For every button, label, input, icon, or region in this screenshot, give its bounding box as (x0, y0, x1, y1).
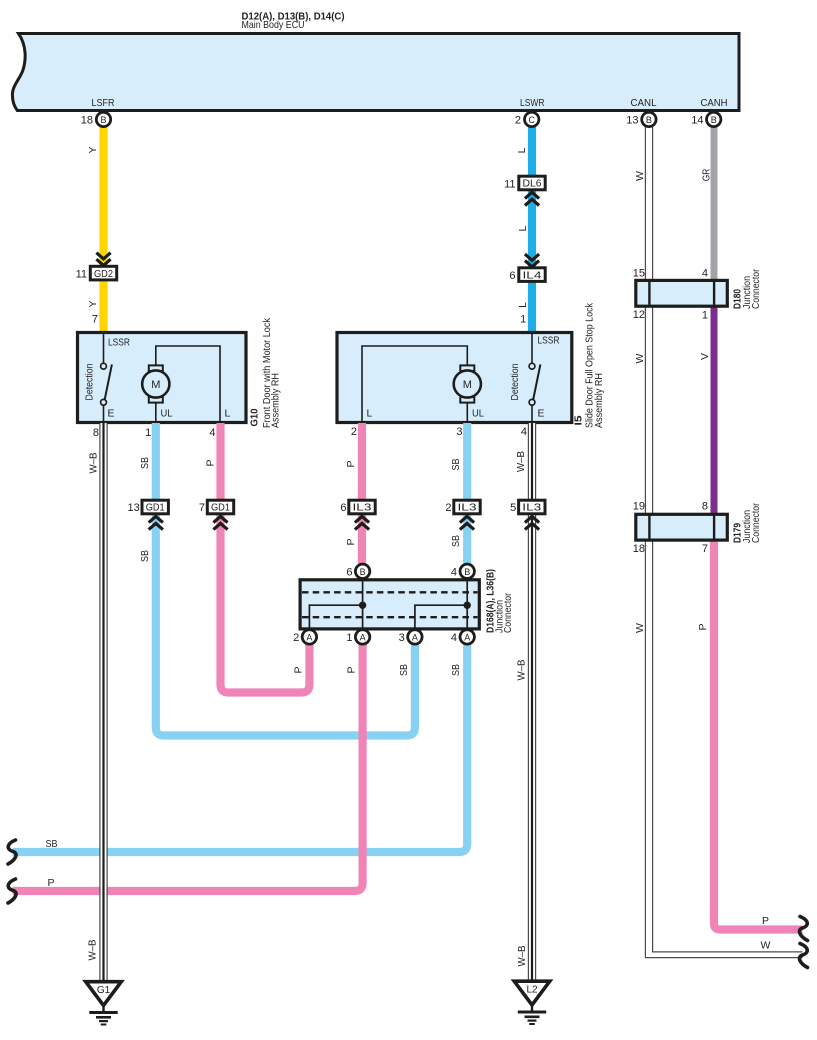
svg-text:4: 4 (209, 427, 215, 439)
connector 2 IL3 (454, 500, 480, 514)
D168 dashed bus upper (302, 591, 478, 593)
svg-text:Detection: Detection (509, 363, 521, 400)
svg-text:W: W (761, 940, 771, 952)
svg-text:P: P (762, 915, 769, 927)
svg-text:UL: UL (472, 408, 484, 420)
svg-text:18: 18 (633, 543, 645, 555)
svg-text:GR: GR (701, 168, 713, 181)
svg-text:2: 2 (351, 426, 357, 438)
svg-text:Y: Y (87, 300, 99, 307)
svg-text:L: L (517, 302, 529, 308)
svg-text:LSSR: LSSR (538, 335, 560, 347)
svg-text:11: 11 (504, 178, 515, 190)
svg-text:L: L (517, 226, 529, 232)
assembly I5 box (337, 333, 572, 423)
I5 internal wire motor to UL pin (466, 402, 468, 422)
svg-text:LSWR: LSWR (520, 97, 545, 109)
break symbol left SB (8, 840, 16, 864)
svg-text:4: 4 (521, 426, 527, 438)
svg-text:1: 1 (346, 632, 352, 644)
svg-text:SB: SB (46, 838, 58, 850)
svg-text:19: 19 (633, 501, 645, 513)
D168 junction dot left (359, 602, 366, 609)
svg-text:L2: L2 (526, 985, 538, 996)
svg-text:E: E (538, 408, 545, 420)
svg-text:Connector: Connector (750, 503, 762, 543)
svg-text:W–B: W–B (86, 940, 98, 961)
connector 13 GD1 (142, 500, 168, 514)
svg-text:6: 6 (346, 566, 352, 578)
break symbol right W (799, 944, 807, 968)
I5 internal wire motor to L pin (362, 346, 467, 422)
svg-text:Detection: Detection (83, 363, 95, 400)
break symbol left P (8, 879, 16, 903)
svg-text:A: A (306, 632, 312, 642)
svg-text:IL3: IL3 (353, 503, 372, 514)
svg-text:LSSR: LSSR (108, 337, 130, 349)
wire P G10 pin 4 through GD1 to D168 pin 2A (221, 423, 310, 693)
I5 motor M (460, 365, 474, 371)
D168 internal wire 2A branch (309, 605, 362, 628)
svg-text:P: P (345, 460, 357, 467)
svg-text:C: C (528, 115, 535, 125)
ECU pin 14 B (CANH) (707, 112, 721, 126)
svg-text:SB: SB (139, 550, 151, 562)
svg-text:B: B (100, 115, 106, 125)
svg-text:4: 4 (451, 632, 457, 644)
svg-text:W–B: W–B (515, 660, 527, 681)
ECU pin 2 C (LSWR) (525, 112, 539, 126)
svg-text:P: P (697, 623, 709, 630)
wire SB G10 pin 1 through GD1 to D168 pin 3A (156, 423, 415, 736)
break symbol right P (799, 917, 807, 941)
svg-text:W–B: W–B (516, 946, 528, 967)
wire Y (yellow) LSFR pin 18 to G10 pin 7 (99, 127, 107, 334)
svg-text:P: P (345, 538, 357, 545)
arrows into GD1 (13) (149, 516, 163, 522)
wire P from left break to D168 pin 1A (13, 644, 363, 892)
svg-text:IL3: IL3 (522, 503, 541, 514)
svg-text:M: M (151, 379, 160, 391)
ground L2 (514, 981, 550, 1005)
svg-text:CANH: CANH (701, 97, 728, 109)
svg-text:E: E (108, 408, 115, 420)
D168 pin 6 B (355, 564, 369, 578)
svg-text:B: B (464, 567, 470, 577)
svg-text:A: A (412, 632, 418, 642)
svg-text:GD2: GD2 (94, 269, 113, 280)
arrows into IL3 (6) (355, 516, 369, 522)
D168 dashed bus lower (302, 616, 478, 618)
svg-text:13: 13 (626, 115, 638, 127)
wire SB I5 pin 3 through IL3 to D168 pin 4B (463, 423, 471, 565)
connector 6 IL4 (519, 268, 545, 282)
svg-text:Main Body ECU: Main Body ECU (242, 19, 305, 31)
svg-text:7: 7 (199, 502, 205, 514)
D168 pin 4 B (460, 564, 474, 578)
svg-text:7: 7 (92, 314, 98, 326)
svg-text:6: 6 (509, 270, 515, 282)
D168 pin 3 A (408, 630, 422, 644)
svg-text:13: 13 (128, 502, 140, 514)
I5 detection switch (531, 334, 533, 363)
wire W (white) CANL pin 13 down through D180/D179 to right break (645, 127, 802, 958)
svg-text:Assembly RH: Assembly RH (593, 373, 605, 428)
D168 internal wire 3A branch (415, 605, 467, 628)
wire W-B I5 pin 4 (E) to ground L2 (527, 423, 529, 982)
ECU U1: Main Body ECU box (12, 34, 739, 111)
arrows into IL3 (2) (460, 516, 474, 522)
G10 internal wire motor to L pin (156, 346, 220, 422)
svg-text:W: W (634, 171, 646, 181)
wire SB from left break to D168 pin 4A (13, 644, 468, 853)
svg-text:M: M (463, 379, 472, 391)
svg-text:P: P (346, 666, 358, 673)
svg-text:IL3: IL3 (458, 503, 477, 514)
svg-text:UL: UL (161, 408, 173, 420)
arrows into IL3 (5) (525, 516, 539, 522)
svg-text:W–B: W–B (515, 451, 527, 472)
svg-text:L: L (225, 408, 231, 420)
connector 11 DL6 (519, 176, 545, 190)
svg-text:SB: SB (398, 664, 410, 676)
D168 pin 4 A (460, 630, 474, 644)
svg-text:2: 2 (293, 632, 299, 644)
arrows into GD1 (7) (213, 516, 227, 522)
svg-text:4: 4 (451, 566, 457, 578)
G10 detection switch (103, 334, 105, 363)
svg-text:G1: G1 (97, 985, 111, 996)
connector 11 GD2 (90, 266, 116, 280)
wire P (pink) D179 pin 7 to right break (714, 539, 803, 930)
svg-text:DL6: DL6 (523, 179, 542, 190)
wire W-B G10 pin 8 to ground G1 (99, 423, 101, 982)
svg-text:2: 2 (515, 115, 521, 127)
connector arrows into IL4 (525, 254, 539, 260)
connector 6 IL3 (349, 500, 375, 514)
svg-text:W: W (634, 353, 646, 363)
G10 internal wire motor to UL pin (155, 402, 157, 422)
svg-text:W–B: W–B (87, 453, 99, 474)
svg-text:8: 8 (93, 427, 99, 439)
svg-text:G10: G10 (249, 408, 261, 426)
assembly G10 box (78, 333, 247, 423)
svg-text:IL4: IL4 (523, 270, 542, 281)
svg-text:B: B (646, 115, 652, 125)
ECU pin 13 B (CANL) (642, 112, 656, 126)
svg-text:5: 5 (510, 502, 516, 514)
D168 pin 1 A (355, 630, 369, 644)
ECU pin 18 B (LSFR) (96, 112, 110, 126)
svg-text:11: 11 (76, 269, 87, 281)
G10 motor M (149, 365, 163, 371)
svg-text:GD1: GD1 (211, 503, 230, 514)
svg-text:1: 1 (520, 314, 526, 326)
svg-text:P: P (292, 666, 304, 673)
svg-text:SB: SB (450, 664, 462, 676)
svg-text:3: 3 (399, 632, 405, 644)
svg-text:18: 18 (81, 115, 93, 127)
wire GR (gray) CANH pin 14 to D180 pin 4 (711, 127, 718, 283)
svg-text:Assembly RH: Assembly RH (270, 373, 282, 428)
svg-text:P: P (47, 877, 54, 889)
svg-text:Connector: Connector (750, 269, 762, 309)
junction connector D179 (636, 514, 728, 540)
svg-text:P: P (204, 459, 216, 466)
svg-text:B: B (360, 567, 366, 577)
svg-text:1: 1 (145, 427, 151, 439)
svg-text:14: 14 (691, 115, 703, 127)
svg-text:3: 3 (456, 426, 462, 438)
junction connector D180 (636, 280, 728, 306)
svg-text:B: B (711, 115, 717, 125)
connector arrows into DL6 (525, 192, 539, 198)
junction connector D168(A), L36(B) box (300, 580, 479, 629)
svg-text:1: 1 (702, 310, 708, 322)
svg-text:SB: SB (450, 459, 462, 471)
svg-text:8: 8 (702, 501, 708, 513)
connector arrows into GD2 (96, 253, 110, 259)
svg-text:LSFR: LSFR (92, 97, 115, 109)
svg-text:4: 4 (702, 268, 708, 280)
wire P I5 pin 2 through IL3 to D168 pin 6B (358, 423, 366, 565)
D168 internal wire 4B-4A (466, 581, 468, 629)
svg-text:2: 2 (445, 502, 451, 514)
svg-text:SB: SB (450, 535, 462, 547)
svg-text:W: W (634, 623, 646, 633)
svg-text:12: 12 (633, 309, 645, 321)
svg-text:SB: SB (139, 457, 151, 469)
svg-text:6: 6 (340, 502, 346, 514)
svg-text:V: V (699, 353, 711, 360)
svg-text:15: 15 (633, 268, 645, 280)
svg-text:Y: Y (87, 146, 99, 153)
svg-text:CANL: CANL (631, 97, 657, 109)
ground G1 (86, 982, 122, 1006)
D168 junction dot right (464, 602, 471, 609)
svg-text:L: L (367, 408, 373, 420)
wire V (violet) D180 pin 1 to D179 pin 8 (711, 305, 718, 516)
connector 7 GD1 (207, 500, 233, 514)
D168 pin 2 A (302, 630, 316, 644)
connector 5 IL3 (519, 500, 545, 514)
svg-text:7: 7 (702, 543, 708, 555)
svg-text:A: A (464, 632, 470, 642)
svg-text:A: A (360, 632, 366, 642)
svg-text:Connector: Connector (502, 593, 514, 633)
svg-text:GD1: GD1 (146, 503, 165, 514)
svg-text:L: L (516, 147, 528, 153)
D168 internal wire 6B-1A (362, 581, 364, 629)
wire L (blue) LSWR pin 2 to I5 pin 1 (528, 127, 536, 334)
